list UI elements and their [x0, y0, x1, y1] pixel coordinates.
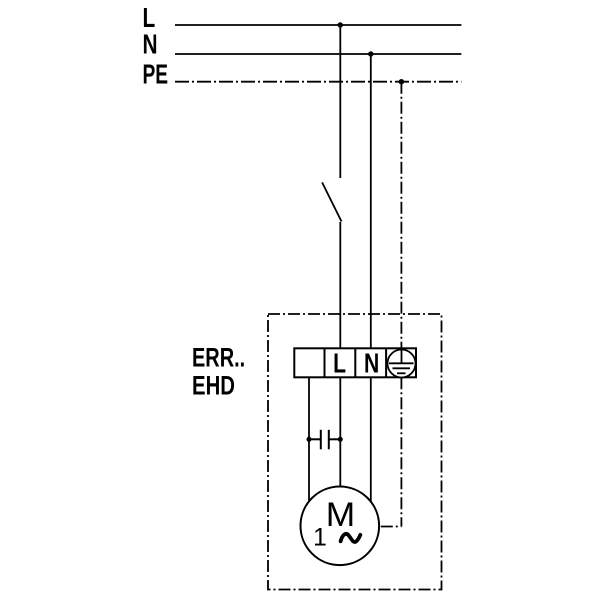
capacitor C right stub: [329, 438, 341, 440]
wire N bus: [175, 53, 461, 55]
wire terminal L to motor: [339, 377, 341, 486]
earth symbol bar long: [389, 362, 414, 364]
earth symbol bar mid: [393, 367, 411, 369]
terminal block outline: [294, 348, 416, 377]
terminal divider 3: [385, 348, 387, 377]
wire terminal1 to motor: [308, 377, 310, 500]
motor M1 circle: [301, 487, 380, 566]
wire PE to motor frame: [381, 526, 402, 528]
switch S blade: [322, 182, 341, 221]
terminal label N: [364, 348, 379, 380]
label L: [143, 3, 156, 34]
wire PE drop: [400, 82, 402, 349]
label ERR..: [192, 343, 245, 372]
terminal divider 2: [354, 348, 356, 377]
svg-text:PE: PE: [143, 59, 169, 90]
wire L drop lower: [339, 222, 341, 348]
motor label M: [326, 496, 355, 533]
earth symbol bar short: [397, 372, 406, 374]
junction dot PE: [399, 79, 404, 84]
svg-text:N: N: [364, 348, 379, 380]
junction dot capacitor left: [307, 437, 312, 442]
svg-text:1: 1: [313, 525, 327, 552]
junction dot L: [338, 22, 343, 27]
capacitor C left stub: [309, 438, 321, 440]
wire PE drop lower: [400, 377, 402, 526]
label N: [143, 30, 158, 61]
enclosure dashed box: [268, 314, 442, 590]
label EHD: [192, 372, 235, 401]
capacitor C right plate: [328, 430, 330, 450]
svg-text:N: N: [143, 30, 158, 61]
terminal divider 1: [324, 348, 326, 377]
capacitor C left plate: [320, 430, 322, 450]
wire N drop: [370, 54, 372, 348]
motor label 1: [313, 525, 327, 552]
earth symbol stem: [401, 350, 403, 364]
svg-text:M: M: [326, 496, 355, 533]
junction dot capacitor right: [338, 437, 343, 442]
wire L drop upper: [339, 25, 341, 178]
wire L bus: [175, 24, 461, 26]
svg-text:EHD: EHD: [192, 372, 235, 401]
junction dot N: [368, 51, 373, 56]
terminal label L: [333, 348, 346, 380]
wire PE bus: [175, 81, 461, 83]
svg-text:ERR..: ERR..: [192, 343, 245, 372]
label PE: [143, 59, 169, 90]
motor label tilde: [341, 534, 361, 542]
wire terminal N to motor: [370, 377, 372, 501]
svg-text:L: L: [333, 348, 346, 380]
earth terminal circle: [388, 350, 416, 378]
